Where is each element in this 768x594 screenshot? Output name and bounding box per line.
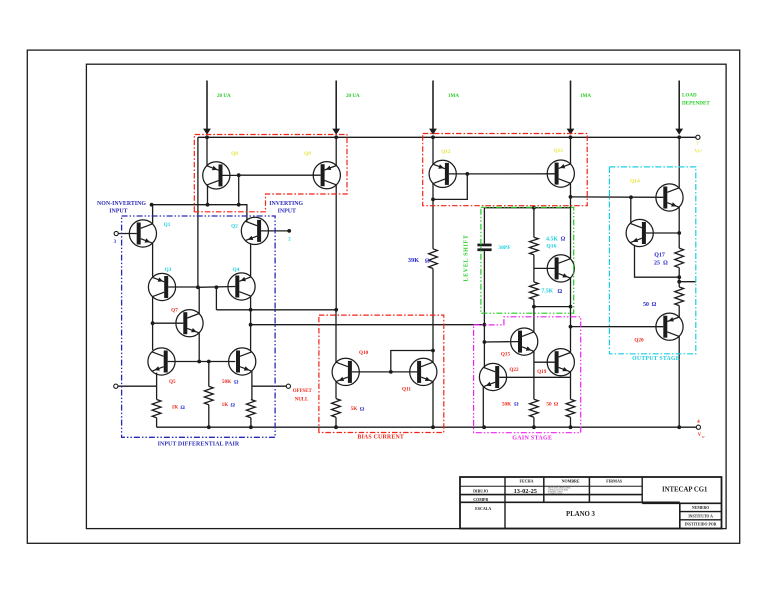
transistor Q2 bbox=[241, 217, 268, 244]
svg-text:DIBUJO: DIBUJO bbox=[473, 488, 488, 493]
V- terminal pin bbox=[696, 425, 700, 429]
svg-text:BIAS CURRENT: BIAS CURRENT bbox=[357, 435, 404, 441]
box: Q8/Q9 current mirror (red) bbox=[194, 135, 347, 212]
wire: Q12 collector down bbox=[432, 184, 434, 200]
transistor Q19 bbox=[547, 349, 574, 376]
node: Q20 base takeoff bbox=[569, 325, 573, 329]
svg-text:Q4: Q4 bbox=[233, 267, 240, 273]
svg-text:Q20: Q20 bbox=[634, 338, 644, 344]
node: Q12/Q13 base junction bbox=[465, 172, 469, 176]
svg-text:NOMBRE: NOMBRE bbox=[562, 479, 580, 484]
svg-text:Q9: Q9 bbox=[304, 151, 311, 157]
resistor R7 7.5K bbox=[530, 282, 539, 300]
svg-text:Ω: Ω bbox=[180, 405, 185, 411]
wire: Q10 emitter down to 5K bbox=[335, 382, 337, 399]
svg-text:PLANO 3: PLANO 3 bbox=[566, 511, 595, 518]
svg-text:FECHA: FECHA bbox=[520, 479, 534, 484]
resistor R1 1K (left) bbox=[152, 400, 161, 418]
wire: 4.5K to Q16 base tee bbox=[533, 255, 535, 282]
node: output junction bbox=[677, 280, 681, 284]
transistor Q9 bbox=[313, 162, 340, 189]
svg-text:INPUT: INPUT bbox=[278, 209, 296, 215]
svg-text:COMPR: COMPR bbox=[473, 497, 488, 502]
wire: R3 bottom to rail bbox=[250, 418, 252, 427]
resistor R3 1K (right) bbox=[247, 400, 256, 418]
wire: Q1 collector up to bus bbox=[152, 205, 154, 224]
inner drawing border bbox=[86, 64, 726, 528]
wire: Q2 emitter down to Q4 bbox=[250, 244, 252, 276]
svg-text:Q19: Q19 bbox=[537, 369, 547, 375]
svg-text:1MA: 1MA bbox=[448, 93, 459, 99]
supply feed line 3 bbox=[432, 81, 434, 130]
node: Q15 base junction bbox=[483, 340, 487, 344]
svg-text:INVERTING: INVERTING bbox=[269, 201, 303, 207]
resistor R2 50K (middle) bbox=[204, 386, 213, 404]
svg-text:Q22: Q22 bbox=[509, 367, 519, 373]
capacitor C1 30PF top lead bbox=[483, 208, 485, 244]
wire: Q12 base wrap link bbox=[433, 174, 467, 200]
node: Q7 base junction bbox=[151, 321, 155, 325]
wire: Q8 base node to Q9 base bbox=[239, 174, 321, 176]
wire: R1 bottom to V- rail bbox=[156, 418, 158, 427]
transistor Q12 bbox=[429, 160, 456, 187]
resistor R8 50K (gain) bbox=[530, 399, 539, 417]
wire: Q12 base line to Q13 bbox=[467, 173, 554, 175]
wire: 4.5K link from top bbox=[533, 208, 535, 238]
wire: Q14 emitter down bbox=[678, 207, 680, 233]
wire: Q19 collector column bbox=[570, 307, 572, 353]
svg-text:GABRIEL LOPEZ: GABRIEL LOPEZ bbox=[548, 492, 563, 495]
V- rail node dots bbox=[207, 425, 211, 429]
resistor R10 25 (Q17 25) bbox=[675, 248, 684, 268]
svg-text:LOAD: LOAD bbox=[682, 93, 697, 99]
wire: Q4 collector down to Q6 bbox=[250, 296, 252, 351]
wire: Q1/Q2 collector bus bbox=[152, 205, 247, 222]
svg-text:INSTITUIDO POR: INSTITUIDO POR bbox=[685, 523, 717, 527]
svg-text:INPUT DIFFERENTIAL PAIR: INPUT DIFFERENTIAL PAIR bbox=[158, 442, 240, 448]
wire: compensation top link bbox=[484, 207, 570, 209]
svg-text:7.5K: 7.5K bbox=[541, 289, 553, 295]
svg-text:OFFSET: OFFSET bbox=[293, 389, 313, 394]
transistor Q13 bbox=[547, 160, 574, 187]
wire: Q11 collector up bbox=[432, 351, 434, 363]
outer sheet border bbox=[27, 50, 739, 543]
svg-text:5K: 5K bbox=[351, 406, 358, 412]
wire: Q8 collector down bbox=[207, 185, 209, 205]
node: base line junction bbox=[389, 370, 393, 374]
wire: left offset null lead bbox=[118, 385, 157, 387]
svg-text:Ω: Ω bbox=[652, 302, 657, 308]
wire: column from Q13 node down to Q16 collector bbox=[570, 197, 572, 259]
wire: Q12 emitter to rail bbox=[432, 137, 434, 164]
wire: rail left end down to Q3/Q4 base node bbox=[197, 137, 199, 287]
svg-text:Ω: Ω bbox=[561, 237, 566, 243]
svg-text:20 UA: 20 UA bbox=[217, 93, 231, 99]
resistor R4 5K bbox=[332, 399, 341, 418]
wire: Q6 emitter down bbox=[251, 371, 253, 399]
wire: 50K resistor drop from base line bbox=[208, 362, 210, 387]
resistor R9 50 (gain) bbox=[566, 399, 575, 417]
resistor R5 39K bbox=[429, 249, 438, 269]
box: Q12/Q13 mirror (red) bbox=[423, 134, 588, 206]
svg-text:Q1: Q1 bbox=[164, 222, 171, 228]
node: Q18 base junction bbox=[677, 231, 681, 235]
transistor Q10 bbox=[332, 358, 359, 385]
wire: R10 bottom bbox=[678, 268, 680, 287]
wire: Q10 collector up to mirror bus bbox=[335, 310, 337, 363]
node: Q14 base junction bbox=[629, 195, 633, 199]
wire: Q10/Q11 base line bbox=[352, 371, 417, 373]
transistor Q7 bbox=[176, 310, 203, 337]
node: cap/gain node junction bbox=[483, 323, 487, 327]
transistor Q16 bbox=[547, 255, 574, 282]
wire: Q22 base line bbox=[499, 376, 570, 378]
wire: right offset null lead bbox=[252, 385, 286, 387]
wire: link down to 39K bbox=[432, 199, 434, 248]
supply feed line 5 bbox=[678, 81, 680, 130]
wire: base to Q11 collector L-link bbox=[391, 351, 433, 372]
transistor Q1 bbox=[129, 220, 156, 247]
wire: Q18 collector up to Q14 base node bbox=[630, 197, 632, 223]
transistor Q15 bbox=[511, 328, 538, 355]
transistor Q20 bbox=[656, 313, 683, 340]
svg-text:INPUT: INPUT bbox=[109, 208, 127, 214]
svg-text:20 UA: 20 UA bbox=[346, 93, 360, 99]
svg-text:Q3: Q3 bbox=[165, 267, 172, 273]
svg-text:Q12: Q12 bbox=[441, 149, 451, 155]
svg-text:39K: 39K bbox=[408, 257, 419, 264]
svg-text:Ω: Ω bbox=[231, 403, 236, 409]
svg-text:Q7: Q7 bbox=[171, 307, 178, 313]
title block frame bbox=[460, 477, 722, 529]
wire: Q9 collector down to Q10 bbox=[335, 185, 337, 310]
wire: Q13 collector to Q14 base bbox=[571, 196, 664, 198]
node: 7.5K bottom junction bbox=[532, 305, 536, 309]
wire: level shift output link bbox=[534, 306, 571, 308]
svg-text:Q11: Q11 bbox=[402, 386, 411, 392]
svg-text:Q10: Q10 bbox=[359, 350, 369, 356]
svg-text:Q5: Q5 bbox=[169, 379, 176, 385]
input pin 3 terminal bbox=[114, 231, 118, 235]
svg-text:LEVEL SHIFT: LEVEL SHIFT bbox=[464, 234, 470, 281]
node dots on mirror bus bbox=[249, 308, 253, 312]
wire: Q11 emitter down to rail bbox=[432, 382, 434, 428]
wire: Q15 emitter / Q19 base tee bbox=[533, 351, 535, 399]
node: Q3/Q4 base / bypass junction bbox=[196, 285, 200, 289]
svg-text:50: 50 bbox=[546, 401, 552, 407]
node dots on base line bbox=[197, 360, 201, 364]
transistor Q14 bbox=[656, 184, 683, 211]
wire: Q7 collector up to base node bbox=[198, 287, 200, 313]
resistor R6 4.5K bbox=[530, 237, 539, 255]
svg-text:OUTPUT STAGE: OUTPUT STAGE bbox=[632, 356, 680, 362]
transistor Q18 bbox=[626, 219, 653, 246]
svg-text:ESCALA: ESCALA bbox=[475, 506, 491, 511]
V- rail wire bbox=[157, 426, 699, 428]
transistor Q4 bbox=[228, 273, 255, 300]
node: Q16 emitter junction bbox=[569, 305, 573, 309]
wire: R4 bottom to rail bbox=[335, 417, 337, 427]
svg-text:1K: 1K bbox=[172, 405, 179, 411]
svg-text:NUMERO: NUMERO bbox=[692, 506, 709, 510]
svg-text:Ω: Ω bbox=[554, 402, 559, 408]
transistor Q5 bbox=[148, 348, 175, 375]
node: 4.5K top junction bbox=[532, 206, 536, 210]
svg-text:4.5K: 4.5K bbox=[546, 237, 558, 243]
svg-text:30PF: 30PF bbox=[498, 245, 511, 251]
svg-text:Ω: Ω bbox=[360, 406, 365, 412]
svg-text:Q14: Q14 bbox=[630, 179, 640, 185]
node: Q12 collector junction bbox=[431, 198, 435, 202]
wire: Q22 collector link bbox=[483, 342, 485, 368]
transistor Q8 bbox=[203, 162, 230, 189]
wire: base node down to collector bus bbox=[238, 175, 240, 205]
wire: Q19 emitter down / Q22 base line bbox=[570, 372, 572, 399]
V+ rail wire bbox=[198, 136, 698, 138]
transistor Q6 bbox=[229, 348, 256, 375]
wire: Q20 base line bbox=[571, 326, 664, 328]
wire: Q3 collector down to Q5 bbox=[152, 297, 154, 351]
wire: R11 to Q20 emitter bbox=[678, 306, 680, 318]
svg-text:1MA: 1MA bbox=[580, 93, 591, 99]
node: riser junction on base line bbox=[215, 285, 219, 289]
wire: Q16 emitter down bbox=[570, 278, 572, 307]
node dots on collector bus bbox=[150, 203, 154, 207]
transistor Q11 bbox=[410, 358, 437, 385]
wire: gain node down bbox=[483, 325, 485, 342]
wire: Q13 emitter up to rail bbox=[570, 137, 572, 164]
node: Q13 collector node bbox=[569, 195, 573, 199]
supply feed line 4 bbox=[570, 81, 572, 130]
svg-text:25: 25 bbox=[654, 261, 660, 267]
wire: 39K bottom to Q11 collector node bbox=[432, 269, 434, 351]
svg-text:1K: 1K bbox=[222, 402, 229, 408]
svg-text:Vs+: Vs+ bbox=[694, 150, 702, 155]
wire: Q20 collector down to rail bbox=[678, 336, 680, 427]
wire: Q7 emitter down to Q5/Q6 base line bbox=[198, 333, 200, 362]
svg-text:NON-INVERTING: NON-INVERTING bbox=[97, 201, 146, 207]
wire: Q13 collector down bbox=[570, 183, 572, 197]
wire: Q1 emitter down to Q3 bbox=[152, 243, 154, 276]
svg-text:Ω: Ω bbox=[234, 380, 239, 386]
wire: Q8 emitter to rail bbox=[206, 137, 208, 166]
capacitor C1 30PF bbox=[477, 244, 491, 247]
wire: gain node line to level shift bbox=[251, 324, 485, 326]
node: gain takeoff junction bbox=[249, 323, 253, 327]
wire: Q22 emitter to rail bbox=[482, 387, 484, 428]
node: Q8/Q9 base junction bbox=[237, 173, 241, 177]
box: level shift (green) bbox=[481, 207, 574, 313]
svg-text:INTECAP CG1: INTECAP CG1 bbox=[662, 486, 708, 493]
wire: riser from base line down to mirror bus bbox=[215, 287, 217, 310]
svg-text:Ω: Ω bbox=[514, 402, 519, 408]
svg-text:13-02-25: 13-02-25 bbox=[514, 488, 537, 495]
svg-text:Ω: Ω bbox=[663, 261, 668, 267]
svg-text:Q16: Q16 bbox=[546, 243, 556, 249]
wire: R9 bottom to rail bbox=[570, 417, 572, 427]
wire: Q5/Q6 base line bbox=[168, 361, 236, 363]
wire: R2 bottom to rail bbox=[208, 405, 210, 428]
box: gain stage (magenta) bbox=[474, 317, 581, 433]
svg-text:Q13: Q13 bbox=[554, 148, 564, 154]
node: Q11 collector junction bbox=[431, 349, 435, 353]
box: bias current (red) bbox=[319, 315, 444, 432]
wire: Q19 base link bbox=[534, 361, 555, 363]
wire: R8 bottom to rail bbox=[533, 417, 535, 427]
svg-text:Q2: Q2 bbox=[231, 223, 238, 229]
svg-text:NULL: NULL bbox=[295, 398, 309, 403]
supply feed line 1 bbox=[206, 81, 208, 130]
svg-text:Q15: Q15 bbox=[501, 351, 511, 357]
resistor R11 50 (output) bbox=[675, 287, 684, 306]
transistor Q22 bbox=[479, 363, 506, 390]
offset null left pin bbox=[114, 384, 118, 388]
svg-text:Q8: Q8 bbox=[231, 151, 238, 157]
svg-text:50K: 50K bbox=[222, 379, 231, 385]
V+ terminal pin bbox=[696, 135, 700, 139]
wire: Q9 emitter to rail bbox=[335, 137, 337, 165]
svg-text:FIRMAS: FIRMAS bbox=[606, 479, 623, 484]
svg-text:Q17: Q17 bbox=[654, 253, 665, 259]
wire: mirror bus y=310 bbox=[216, 309, 336, 311]
wire: Q5 emitter down bbox=[156, 373, 158, 400]
transistor Q3 bbox=[148, 273, 175, 300]
svg-text:DEPENDET: DEPENDET bbox=[682, 100, 710, 106]
offset null right pin bbox=[286, 384, 290, 388]
input pin 2 stub and dot bbox=[261, 230, 289, 232]
svg-text:Ω: Ω bbox=[557, 289, 562, 295]
box: output stage (cyan) bbox=[609, 167, 695, 354]
node: Q18 emitter junction bbox=[677, 275, 681, 279]
wire: output stub bbox=[679, 281, 696, 283]
box: input differential pair (blue) bbox=[122, 216, 276, 437]
wire: Q18 emitter link bbox=[635, 246, 680, 278]
svg-text:INSTITUTO A: INSTITUTO A bbox=[688, 514, 713, 518]
svg-text:50K: 50K bbox=[502, 401, 511, 407]
capacitor C1 bottom lead bbox=[483, 251, 485, 325]
wire: Q14 collector to rail bbox=[678, 137, 680, 188]
wire: 7.5K bottom link bbox=[533, 300, 535, 332]
svg-text:Ω: Ω bbox=[425, 258, 430, 264]
supply feed line 2 bbox=[335, 81, 337, 130]
svg-text:GAIN STAGE: GAIN STAGE bbox=[512, 435, 552, 441]
svg-text:50: 50 bbox=[643, 302, 649, 308]
wire: 25 ohm resistor link bbox=[678, 233, 680, 248]
